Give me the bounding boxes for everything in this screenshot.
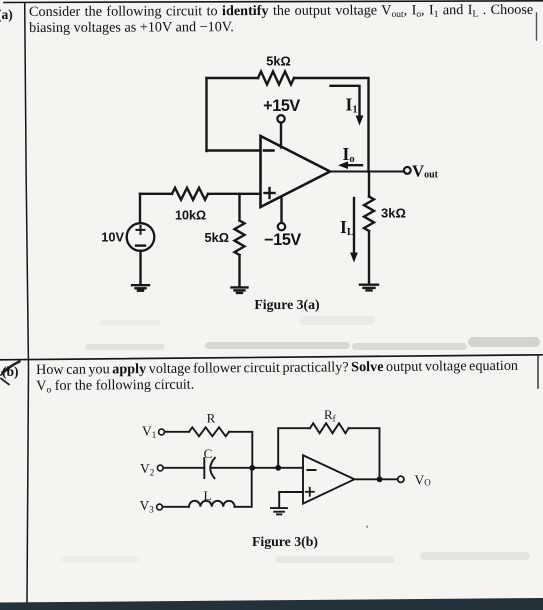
- wire: C to summing node: [212, 467, 304, 469]
- arrowhead of IL (down): [350, 253, 358, 263]
- resistor 5k feedback zigzag: [258, 72, 294, 85]
- wire: 5k to ground: [238, 255, 240, 287]
- resistor 3k zigzag: [364, 197, 374, 232]
- ground under source: [132, 285, 149, 291]
- wire: Rf to output drop: [349, 428, 380, 479]
- junction inverting input node: [275, 465, 281, 471]
- wire: feedback top right segment: [294, 78, 369, 172]
- -15V supply stub and terminal: [280, 197, 282, 223]
- +15V supply stub and terminal: [280, 123, 282, 148]
- row separator rule between (a) and (b): [0, 355, 543, 360]
- current Io arrow line: [345, 164, 362, 166]
- wire: L to summing bus: [235, 468, 252, 507]
- op-amp U1 triangle: [261, 136, 331, 207]
- wire: V2 to capacitor C: [163, 467, 204, 469]
- ground at plus input: [271, 508, 287, 514]
- svg-text:V3: V3: [140, 498, 155, 515]
- wire: 3k to ground: [368, 231, 370, 284]
- table right edge rule stub: [536, 13, 538, 40]
- svg-text:Rf: Rf: [324, 407, 336, 424]
- arrowhead of I1 (down): [356, 116, 364, 126]
- svg-text:IL: IL: [340, 217, 354, 238]
- resistor 5k grounding zigzag: [235, 221, 245, 256]
- op-amp minus input sign: [264, 149, 274, 152]
- svg-text:10kΩ: 10kΩ: [175, 209, 206, 223]
- svg-text:Vout: Vout: [412, 162, 439, 181]
- output terminal Vo circle: [398, 476, 404, 482]
- resistor Rf zigzag: [310, 423, 349, 433]
- wire: output node down to 3k resistor: [368, 172, 370, 197]
- table top rule: [4, 1, 543, 3]
- capacitor C left plate: [203, 458, 205, 478]
- input terminal V3 circle: [157, 504, 163, 510]
- wire: feedback riser at inverting node: [278, 428, 310, 468]
- inductor L humps: [189, 501, 235, 507]
- voltage source V1 10V circle: [127, 223, 155, 251]
- svg-text:': ': [366, 522, 368, 536]
- capacitor C right curved plate: [210, 458, 215, 479]
- svg-text:5kΩ: 5kΩ: [205, 230, 230, 245]
- Vout terminal circle: [404, 167, 411, 174]
- source plus sign: [137, 226, 145, 234]
- current IL arrow line: [353, 198, 355, 255]
- svg-text:3kΩ: 3kΩ: [381, 206, 406, 221]
- wire: source to ground: [139, 251, 141, 284]
- wire: op-amp output to Vout terminal: [330, 171, 404, 173]
- row label (b): [2, 364, 19, 380]
- wire: V3 to inductor L: [163, 506, 190, 508]
- source minus sign: [136, 244, 145, 246]
- table left column rule: [25, 3, 29, 602]
- wire: inverting input horizontal: [207, 149, 261, 151]
- input terminal V2 circle: [157, 465, 163, 471]
- svg-text:R: R: [207, 411, 216, 426]
- row label (a): [0, 7, 13, 23]
- svg-text:Io: Io: [343, 144, 355, 165]
- resistor 10k zigzag: [172, 188, 208, 200]
- ground under 3k: [360, 285, 378, 291]
- svg-text:Figure 3(b): Figure 3(b): [252, 534, 318, 550]
- ground under 5k: [232, 287, 248, 293]
- svg-text:C: C: [204, 446, 213, 461]
- svg-text:−15V: −15V: [264, 231, 301, 249]
- svg-text:V2: V2: [140, 461, 154, 478]
- wire: node down to 5k resistor: [238, 194, 240, 221]
- resistor R zigzag: [189, 427, 229, 436]
- problem text (b): [36, 358, 518, 393]
- input terminal V1 circle: [159, 429, 165, 435]
- wire: op-amp output to Vo terminal: [354, 478, 397, 480]
- wire: R to summing bus: [229, 432, 252, 468]
- junction output node: [377, 476, 383, 482]
- junction summing bus node: [249, 465, 255, 471]
- svg-text:10V: 10V: [101, 230, 124, 245]
- bottom dark bar: [0, 598, 543, 610]
- wire: plus input to ground: [279, 492, 303, 507]
- op-amp U2 minus sign: [308, 469, 316, 471]
- svg-text:5kΩ: 5kΩ: [266, 54, 291, 69]
- wire: feedback left vertical: [205, 78, 207, 151]
- op-amp U2 triangle: [303, 455, 354, 503]
- op-amp U2 plus sign: [306, 488, 314, 496]
- arrowhead of Io (left): [338, 161, 348, 169]
- current I1 arrow hook: [331, 86, 360, 118]
- labels figure a : component values (bold sans): [101, 54, 406, 250]
- wire: 10k to op-amp plus input: [208, 193, 261, 195]
- problem text (a): [29, 3, 533, 36]
- svg-text:V1: V1: [142, 424, 156, 441]
- table right edge rule stub lower: [537, 356, 539, 388]
- wire: source to 10k corner: [139, 194, 141, 223]
- svg-text:I1: I1: [346, 95, 358, 116]
- svg-text:+15V: +15V: [263, 97, 300, 115]
- svg-text:L: L: [204, 488, 212, 503]
- pen swirl over (b): [1, 362, 20, 385]
- op-amp plus input sign: [265, 188, 275, 198]
- svg-text:Figure 3(a): Figure 3(a): [254, 297, 319, 313]
- svg-text:VO: VO: [415, 473, 432, 488]
- wire: V1 to resistor R: [165, 431, 190, 433]
- wire: feedback top left segment: [207, 77, 259, 79]
- wire: non-inverting input horizontal: [140, 193, 172, 195]
- scan ghost streaks: [60, 316, 540, 563]
